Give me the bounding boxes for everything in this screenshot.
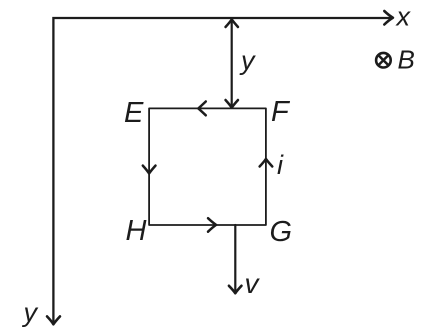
svg-text:v: v [245,268,261,299]
svg-text:B: B [398,45,415,75]
svg-text:F: F [271,96,291,128]
svg-text:E: E [124,97,144,129]
svg-text:x: x [395,2,412,32]
svg-text:y: y [239,46,256,76]
svg-text:H: H [126,215,147,247]
svg-text:G: G [270,216,293,248]
svg-text:i: i [277,150,284,180]
svg-text:y: y [22,298,39,328]
